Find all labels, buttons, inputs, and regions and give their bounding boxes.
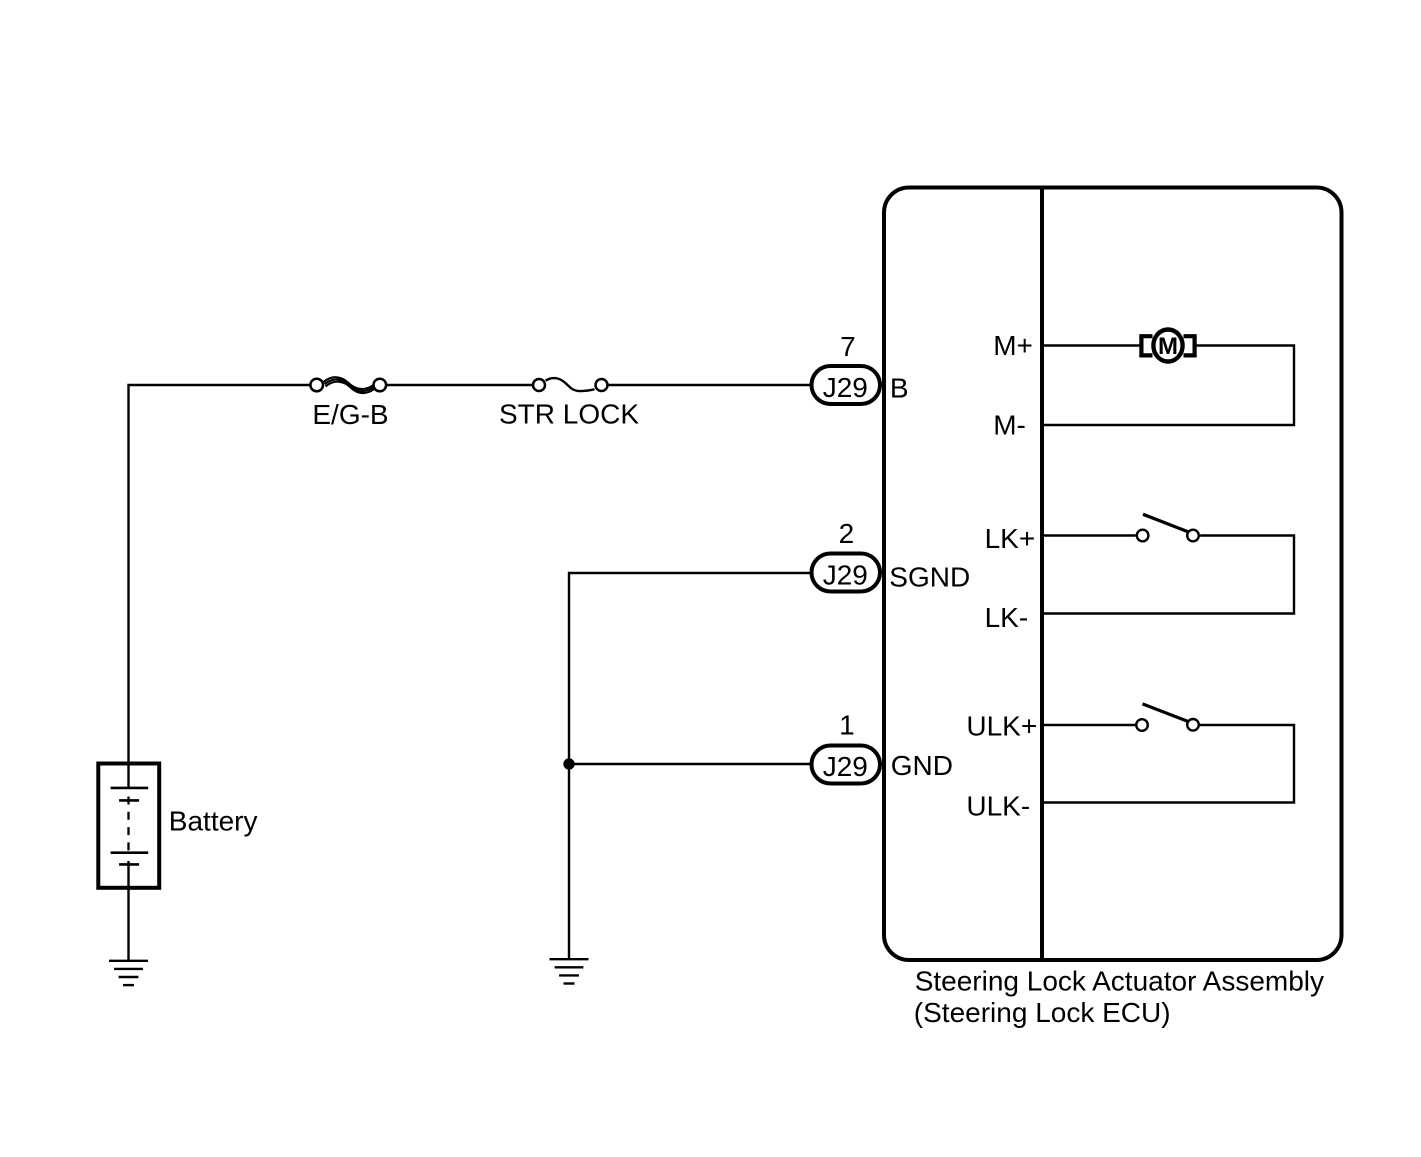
svg-text:STR LOCK: STR LOCK — [499, 399, 639, 430]
svg-text:SGND: SGND — [889, 561, 970, 592]
svg-text:M-: M- — [993, 410, 1026, 441]
svg-text:B: B — [890, 372, 909, 403]
svg-text:M+: M+ — [993, 330, 1033, 361]
svg-text:J29: J29 — [823, 559, 868, 590]
svg-text:1: 1 — [839, 710, 855, 741]
svg-text:7: 7 — [840, 331, 856, 362]
svg-text:E/G-B: E/G-B — [312, 399, 388, 430]
svg-text:ULK-: ULK- — [966, 791, 1030, 822]
svg-text:LK-: LK- — [985, 602, 1029, 633]
svg-text:M: M — [1158, 333, 1178, 360]
svg-text:(Steering Lock ECU): (Steering Lock ECU) — [914, 997, 1171, 1028]
svg-text:J29: J29 — [823, 751, 868, 782]
svg-text:Steering Lock Actuator Assembl: Steering Lock Actuator Assembly — [915, 965, 1324, 996]
svg-text:Battery: Battery — [169, 806, 258, 837]
svg-text:ULK+: ULK+ — [966, 711, 1037, 742]
svg-text:2: 2 — [839, 518, 855, 549]
svg-text:J29: J29 — [823, 372, 868, 403]
svg-text:LK+: LK+ — [985, 523, 1036, 554]
svg-text:GND: GND — [891, 750, 953, 781]
